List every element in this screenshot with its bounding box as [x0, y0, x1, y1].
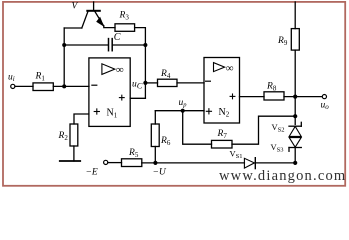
resistor R5: [122, 148, 142, 167]
wire N2 output to R8: [240, 96, 265, 98]
svg-text:C: C: [114, 32, 121, 43]
wire right rail top: [294, 2, 296, 29]
wire N1 plus input to R2: [74, 114, 89, 124]
resistor R2: [58, 124, 78, 146]
wire uC rail vertical (C node to N1 output): [144, 45, 146, 98]
transistor V: [72, 2, 105, 28]
wire R4 to N2 minus input: [177, 82, 204, 84]
resistor R6: [151, 111, 171, 163]
node junction diode chain / VS1 wire: [293, 161, 297, 165]
node junction left rail / C: [62, 43, 66, 47]
node junction C / R3 / uC rail: [143, 43, 147, 47]
resistor R1: [33, 71, 53, 90]
zener diode VS2: [272, 122, 302, 136]
node junction output rail / R8: [293, 95, 297, 99]
wire base of V to left rail: [64, 27, 82, 29]
wire diode chain bottom: [294, 148, 296, 163]
wire R1 to N1 minus input: [53, 85, 89, 87]
resistor R3: [115, 10, 135, 31]
resistor R9: [277, 29, 299, 50]
wire left rail (base node down to R1 node): [63, 28, 65, 86]
svg-text:www.diangon.com: www.diangon.com: [219, 168, 346, 184]
wire collector of V to top rail: [93, 2, 95, 10]
wire ui to R1: [15, 85, 33, 87]
output terminal uo: [321, 95, 330, 111]
resistor R7: [212, 129, 233, 148]
wire R2 to ground: [73, 146, 75, 161]
wire emitter of V to R3: [104, 26, 115, 28]
wire R6 top to N2 plus input: [155, 110, 204, 112]
wire VS1 to output rail: [255, 162, 295, 164]
wire up node down to R7: [183, 111, 212, 145]
resistor R4: [158, 69, 178, 87]
wire R3 to node uC vertical: [135, 28, 146, 45]
ground bar: [60, 160, 80, 162]
wire uC to R4: [145, 82, 157, 84]
svg-text:∞: ∞: [226, 62, 234, 74]
svg-text:−E: −E: [86, 168, 98, 178]
wire -E to R5: [108, 162, 122, 164]
node junction up: [181, 109, 185, 113]
node junction R1 / left rail: [62, 84, 66, 88]
node junction uC / R4: [143, 81, 147, 85]
resistor R8: [264, 82, 284, 100]
wire right rail R9 to diodes: [294, 50, 296, 124]
svg-text:∞: ∞: [116, 64, 124, 76]
diode VS1: [230, 148, 256, 168]
wire R7 to output rail: [232, 116, 295, 144]
node junction R7 feedback / diode chain: [293, 114, 297, 118]
capacitor C: [64, 32, 145, 51]
svg-text:uC: uC: [132, 80, 143, 91]
node junction -U / R6: [153, 161, 157, 165]
input terminal ui: [8, 72, 15, 88]
wire R8 to uo terminal: [284, 96, 322, 98]
svg-text:−U: −U: [153, 168, 167, 178]
terminal -E: [86, 160, 108, 177]
op-amp N2: [204, 58, 240, 124]
wire N1 output: [130, 97, 145, 99]
wire R5 to diode VS1: [142, 162, 245, 164]
zener diode VS3: [271, 138, 302, 154]
op-amp N1: [89, 58, 130, 127]
